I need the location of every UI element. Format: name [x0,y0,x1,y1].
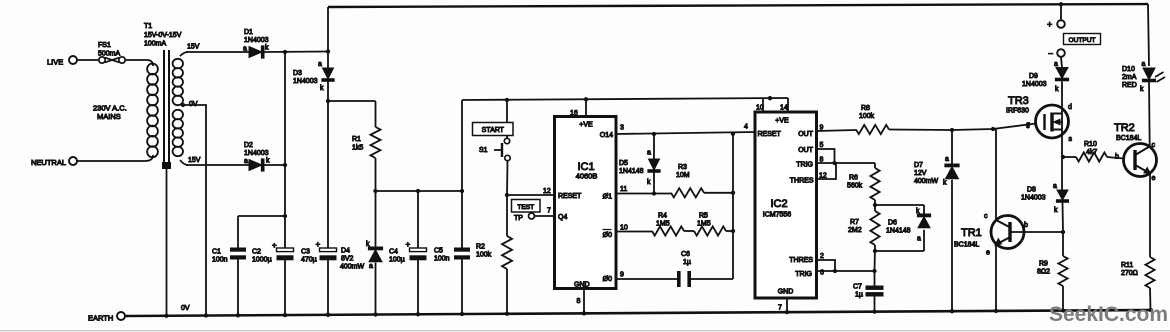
svg-text:C5: C5 [434,248,443,255]
svg-text:7: 7 [778,305,782,312]
svg-text:O14: O14 [600,132,613,139]
svg-text:2M2: 2M2 [848,227,862,234]
svg-text:1N4003: 1N4003 [1022,81,1047,88]
svg-text:4: 4 [744,124,748,131]
svg-text:470µ: 470µ [301,257,317,264]
svg-text:IC2: IC2 [770,198,787,210]
svg-text:0V: 0V [181,305,190,312]
svg-text:s: s [1069,136,1073,143]
svg-text:+VE: +VE [579,122,593,129]
svg-text:c: c [984,213,988,220]
svg-text:a: a [917,236,921,243]
svg-text:C1: C1 [212,249,221,256]
svg-text:C2: C2 [252,249,261,256]
svg-text:1000µ: 1000µ [252,257,272,264]
svg-text:RED: RED [1122,82,1137,89]
svg-text:a: a [244,158,248,165]
svg-text:R1: R1 [352,136,361,143]
svg-text:ICM7556: ICM7556 [763,212,792,219]
svg-text:S1: S1 [479,147,488,154]
svg-text:7: 7 [547,208,551,215]
svg-text:3: 3 [620,125,624,132]
svg-text:D2: D2 [244,142,253,149]
svg-text:C4: C4 [389,249,398,256]
svg-text:C6: C6 [681,251,690,258]
svg-text:2mA: 2mA [1122,74,1137,81]
svg-text:1N4003: 1N4003 [244,37,269,44]
svg-text:8Ω2: 8Ω2 [1037,269,1050,276]
svg-text:R3: R3 [678,164,687,171]
svg-text:TRIG: TRIG [796,162,813,169]
svg-text:+: + [272,241,277,250]
svg-text:k: k [1140,86,1144,93]
svg-text:b: b [1024,222,1028,229]
svg-text:g: g [1026,122,1030,129]
svg-text:−: − [1048,49,1053,59]
svg-text:+: + [406,240,411,249]
svg-text:R4: R4 [658,213,667,220]
svg-text:270Ω: 270Ω [1121,270,1138,277]
svg-text:8V2: 8V2 [341,256,354,263]
svg-text:a: a [945,156,949,163]
svg-text:Ø0: Ø0 [603,232,612,239]
svg-text:R8: R8 [861,105,870,112]
svg-text:100mA: 100mA [144,41,167,48]
svg-text:R2: R2 [476,244,485,251]
svg-text:GND: GND [778,289,794,296]
svg-text:TR2: TR2 [1114,122,1135,134]
svg-text:R10: R10 [1084,141,1097,148]
svg-text:TRIG: TRIG [795,271,812,278]
svg-text:R9: R9 [1039,261,1048,268]
svg-text:THRES: THRES [789,257,813,264]
svg-text:15V-0V-15V: 15V-0V-15V [144,32,182,39]
svg-text:LIVE: LIVE [47,58,63,67]
svg-text:D9: D9 [1029,73,1038,80]
svg-text:1N4148: 1N4148 [886,228,911,235]
svg-text:NEUTRAL: NEUTRAL [31,158,66,167]
svg-text:b: b [1115,154,1119,161]
svg-text:e: e [986,250,990,257]
svg-text:D8: D8 [1027,187,1036,194]
svg-text:a: a [243,46,247,53]
svg-text:100n: 100n [434,256,450,263]
svg-text:10: 10 [620,225,628,232]
svg-text:TP: TP [514,215,523,222]
svg-text:+: + [1047,20,1052,30]
svg-text:12V: 12V [914,170,927,177]
svg-text:a: a [1054,61,1058,68]
svg-text:START: START [482,127,505,134]
svg-text:15V: 15V [187,44,200,51]
svg-text:D6: D6 [888,220,897,227]
svg-text:k: k [1054,207,1058,214]
svg-text:a: a [318,61,322,68]
svg-text:16: 16 [570,110,578,117]
svg-text:C3: C3 [301,249,310,256]
svg-text:C7: C7 [853,284,862,291]
svg-text:k: k [266,158,270,165]
svg-text:IRF630: IRF630 [1006,108,1029,115]
svg-text:1µ: 1µ [683,259,691,266]
svg-text:1k5: 1k5 [352,145,363,152]
svg-text:a: a [1142,61,1146,68]
svg-text:R7: R7 [850,219,859,226]
svg-text:a: a [1053,183,1057,190]
svg-text:10: 10 [756,105,764,112]
svg-text:1N4003: 1N4003 [244,150,269,157]
svg-text:Q4: Q4 [558,214,567,221]
svg-text:500mA: 500mA [98,51,121,58]
svg-text:15V: 15V [188,157,201,164]
svg-text:1N4148: 1N4148 [619,168,644,175]
svg-text:THRES: THRES [790,178,814,185]
svg-text:100n: 100n [212,257,228,264]
svg-text:100µ: 100µ [389,257,405,264]
svg-text:14: 14 [780,105,788,112]
svg-text:8: 8 [577,298,581,305]
svg-text:1M5: 1M5 [656,221,670,228]
svg-text:D10: D10 [1122,66,1135,73]
svg-text:9: 9 [620,272,624,279]
svg-text:400mW: 400mW [340,264,365,271]
svg-text:FS1: FS1 [98,42,111,49]
svg-text:11: 11 [620,186,627,193]
svg-text:5: 5 [820,142,824,149]
svg-text:OUT: OUT [798,131,814,138]
svg-text:D7: D7 [914,162,923,169]
svg-text:k: k [1055,86,1059,93]
svg-text:EARTH: EARTH [88,314,113,323]
svg-text:OUTPUT: OUTPUT [1068,37,1095,44]
svg-text:R6: R6 [849,175,858,182]
svg-text:1N4003: 1N4003 [1021,195,1046,202]
svg-text:OUT: OUT [798,147,814,154]
svg-text:d: d [1068,104,1072,111]
svg-text:D1: D1 [244,29,253,36]
svg-text:a: a [647,150,651,157]
svg-text:TR1: TR1 [961,227,982,239]
svg-text:100k: 100k [859,113,875,120]
svg-text:1M5: 1M5 [697,221,711,228]
svg-text:GND: GND [574,282,590,289]
svg-text:k: k [320,85,324,92]
svg-text:Ø1: Ø1 [603,194,612,201]
svg-text:560k: 560k [847,183,863,190]
svg-text:BC184L: BC184L [954,242,979,249]
svg-text:e: e [1152,175,1156,182]
svg-text:+: + [316,240,321,249]
svg-text:MAINS: MAINS [97,112,121,121]
svg-text:1N4003: 1N4003 [293,78,318,85]
svg-text:RESET: RESET [758,131,782,138]
svg-text:Ø0: Ø0 [603,276,612,283]
svg-text:12: 12 [543,188,551,195]
svg-text:4060B: 4060B [576,172,598,181]
svg-text:c: c [1152,142,1156,149]
svg-text:400mW: 400mW [914,178,939,185]
svg-text:RESET: RESET [558,193,582,200]
svg-text:BC184L: BC184L [1116,135,1141,142]
svg-text:+VE: +VE [775,118,789,125]
svg-text:R5: R5 [699,213,708,220]
svg-text:100k: 100k [476,252,492,259]
svg-text:10M: 10M [676,172,690,179]
svg-text:D5: D5 [619,160,628,167]
svg-text:D3: D3 [293,70,302,77]
svg-text:D4: D4 [341,248,350,255]
svg-text:T1: T1 [144,23,152,30]
svg-text:TEST: TEST [517,204,534,211]
svg-text:SeekIC.com: SeekIC.com [1049,303,1168,326]
svg-text:2: 2 [820,253,824,260]
svg-text:k: k [265,45,269,52]
svg-text:1µ: 1µ [855,292,863,299]
svg-text:a: a [369,263,373,270]
svg-text:k: k [943,180,947,187]
svg-text:R11: R11 [1121,262,1133,269]
svg-text:TR3: TR3 [1008,95,1029,107]
svg-text:k: k [647,179,651,186]
